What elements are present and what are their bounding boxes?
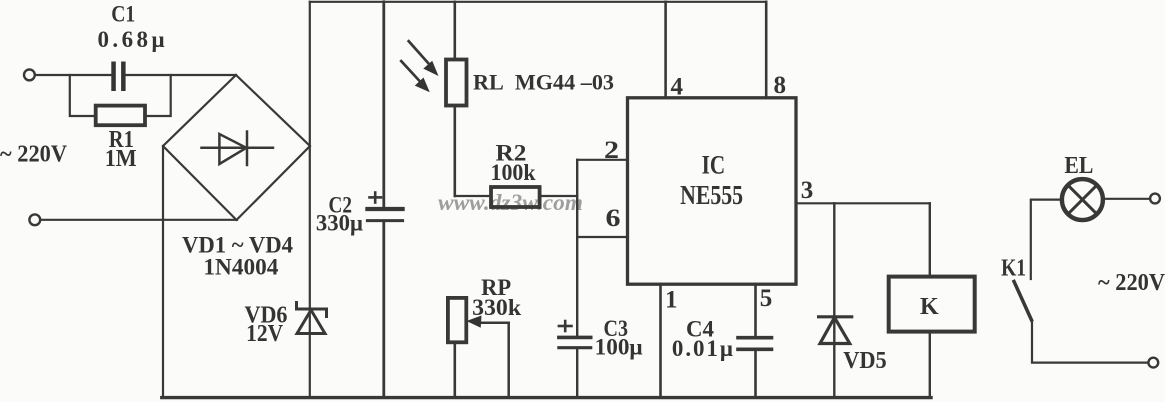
capacitor C1 — [111, 62, 125, 92]
wire pin3 — [796, 202, 930, 204]
svg-text:IC: IC — [702, 150, 726, 179]
diode VD5 — [819, 203, 852, 397]
switch K1 — [1014, 282, 1032, 321]
svg-text:1: 1 — [665, 287, 678, 314]
svg-text:VD5: VD5 — [843, 348, 887, 374]
light arrow 1 — [409, 41, 439, 76]
IC U1 NE555 — [628, 98, 797, 284]
svg-text:3: 3 — [801, 177, 814, 204]
svg-text:1N4004: 1N4004 — [203, 255, 278, 280]
wire — [35, 74, 111, 76]
svg-text:www.dz3w.com: www.dz3w.com — [438, 190, 583, 215]
resistor R2 — [491, 187, 540, 207]
wire (R1 branch left) — [70, 75, 96, 116]
svg-text:2: 2 — [604, 137, 619, 164]
terminal T3 — [1150, 194, 1160, 204]
wire pin1 — [659, 284, 662, 397]
wire pin8 — [765, 2, 768, 98]
svg-text:100μ: 100μ — [595, 335, 643, 360]
wire — [1032, 321, 1148, 363]
svg-text:0.68μ: 0.68μ — [98, 27, 165, 52]
wire — [126, 74, 236, 76]
svg-text:K: K — [920, 294, 939, 320]
svg-text:4: 4 — [670, 73, 683, 100]
wire pin5 — [754, 284, 757, 337]
wire (top rail) — [310, 1, 766, 3]
terminal T1 — [24, 70, 35, 81]
wire — [1103, 198, 1150, 200]
capacitor C4 — [738, 338, 772, 398]
wire — [540, 195, 578, 197]
potentiometer RP wiper arrow — [467, 316, 509, 398]
svg-text:NE555: NE555 — [680, 180, 743, 210]
wire pin6 — [577, 236, 628, 238]
svg-text:8: 8 — [773, 72, 786, 99]
svg-text:100k: 100k — [491, 160, 536, 185]
wire (bottom rail) — [162, 396, 931, 399]
wire (R1 branch right) — [145, 75, 171, 116]
label plus C2 — [370, 193, 382, 203]
svg-text:~ 220V: ~ 220V — [0, 142, 68, 168]
svg-text:K1: K1 — [1001, 256, 1026, 282]
svg-text:6: 6 — [606, 205, 621, 232]
resistor R1 — [96, 106, 145, 126]
light arrow 2 — [401, 61, 430, 92]
capacitor C2 — [367, 2, 402, 398]
label plus C3 — [559, 321, 572, 331]
svg-text:RL MG44 –03: RL MG44 –03 — [473, 70, 614, 95]
bridge rectifier VD1~VD4 — [163, 75, 310, 220]
svg-text:330μ: 330μ — [316, 211, 363, 236]
svg-text:5: 5 — [760, 285, 773, 312]
diode inside bridge — [202, 132, 274, 166]
svg-text:~ 220V: ~ 220V — [1098, 270, 1165, 296]
relay K — [889, 203, 975, 397]
svg-text:1M: 1M — [105, 146, 137, 172]
wire — [455, 195, 491, 197]
terminal T4 — [1148, 358, 1158, 368]
wire — [1031, 200, 1062, 279]
wire (bridge left corner to bottom rail) — [162, 146, 164, 398]
svg-text:12V: 12V — [246, 321, 284, 347]
svg-text:EL: EL — [1064, 153, 1093, 179]
svg-text:0.01μ: 0.01μ — [672, 336, 733, 361]
wire (junction vertical) — [576, 160, 578, 237]
capacitor C3 — [559, 237, 591, 398]
photoresistor RL — [446, 2, 467, 196]
svg-text:330k: 330k — [472, 295, 521, 320]
wire (main left vertical) — [309, 2, 311, 398]
wire pin2 — [577, 159, 628, 161]
svg-text:C1: C1 — [111, 2, 135, 27]
zener diode VD6 — [297, 303, 327, 334]
potentiometer RP — [448, 298, 466, 398]
terminal T2 — [29, 214, 40, 225]
wire — [40, 219, 237, 221]
wire pin4 — [664, 2, 667, 98]
lamp EL — [1062, 179, 1103, 220]
